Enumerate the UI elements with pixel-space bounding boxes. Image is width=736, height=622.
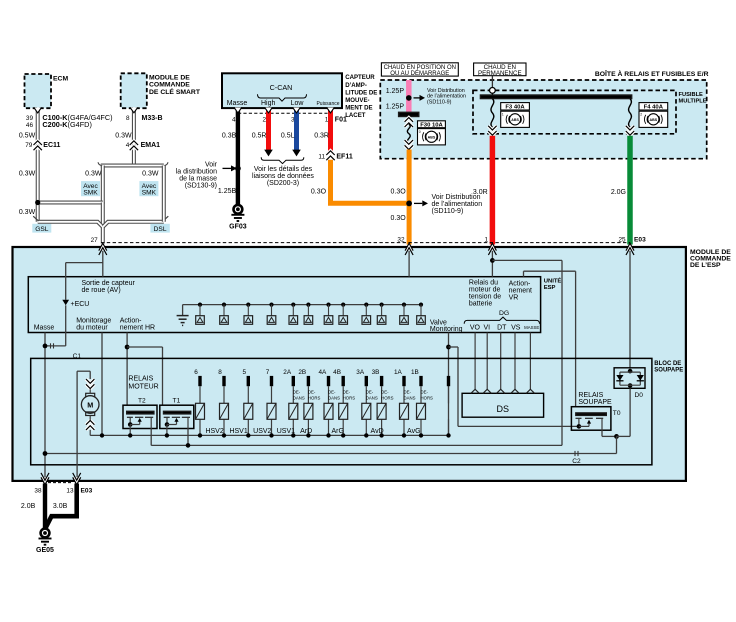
svg-text:EC11: EC11: [43, 142, 60, 149]
svg-text:F4 40A: F4 40A: [644, 105, 664, 111]
junction dot T0 out: [614, 434, 619, 439]
svg-text:E03: E03: [634, 237, 646, 244]
junction dot GSL/SMK: [35, 200, 40, 205]
see power distribution note top: [427, 88, 466, 106]
wire smart key to branch: [132, 108, 136, 165]
connector EMA1: [130, 141, 160, 150]
junction dot pink: [406, 95, 412, 101]
svg-text:COMMANDE: COMMANDE: [149, 82, 190, 89]
svg-text:ABS: ABS: [650, 118, 658, 122]
relay T0: [571, 407, 620, 431]
arrow alimentation top: [414, 95, 426, 101]
connector M33-B label: [142, 115, 163, 122]
connector F01 label: [335, 116, 347, 123]
wire label 0.3W left branch: [85, 171, 102, 178]
fuse F4 40A: [626, 99, 634, 136]
fuse F30 bar: [399, 112, 419, 116]
wire 3.0B: [46, 484, 77, 528]
entry chevron pin32: [405, 243, 413, 255]
label MASSE: [524, 325, 539, 330]
pin 2 label: [262, 116, 266, 123]
wire branch left (Avec SMK): [101, 166, 105, 204]
solenoid valves: [196, 403, 426, 419]
svg-text:2B: 2B: [298, 369, 306, 376]
connector gap C2: [575, 451, 578, 456]
svg-text:0.5L: 0.5L: [281, 133, 295, 140]
ground GE05: [36, 528, 54, 555]
valve block box: [31, 358, 652, 464]
wire T1 output: [187, 429, 189, 446]
svg-text:nement: nement: [509, 288, 532, 295]
svg-text:4A: 4A: [318, 369, 327, 376]
hot in ON label box: [381, 63, 458, 77]
svg-text:Sortie de capteur: Sortie de capteur: [82, 280, 136, 287]
pin 13 label: [66, 488, 74, 495]
fuse F30 10A: [405, 118, 413, 150]
svg-text:MENT DE: MENT DE: [345, 104, 372, 111]
entry chevron pin1: [488, 243, 496, 255]
svg-text:HORS: HORS: [381, 395, 394, 400]
motor M1: [81, 379, 99, 435]
pin 8 label: [126, 115, 130, 122]
svg-text:DS: DS: [497, 404, 510, 414]
svg-text:M: M: [87, 400, 93, 409]
svg-text:1.25P: 1.25P: [386, 88, 405, 95]
ECM box: [25, 74, 69, 108]
svg-text:0.3O: 0.3O: [391, 189, 407, 196]
label UNITE ESP: [544, 276, 562, 291]
svg-text:D’AMP-: D’AMP-: [345, 82, 367, 89]
svg-text:DE-: DE-: [404, 390, 412, 395]
svg-text:27: 27: [91, 237, 99, 244]
svg-text:HSV1: HSV1: [229, 428, 247, 435]
wire 3.0R: [490, 136, 496, 245]
exit chevron pin13: [73, 473, 81, 485]
wire VR: [524, 271, 576, 407]
+ECU arrow: [62, 300, 89, 308]
ESP module box: [13, 247, 686, 481]
label C1: [73, 353, 82, 360]
entry chevron pin25: [626, 243, 634, 255]
wire 2.0G: [627, 136, 633, 245]
pin 79 label: [25, 142, 33, 149]
label D0: [635, 392, 644, 399]
wire masse to pin38: [44, 333, 46, 478]
valve monitor squares: [196, 303, 426, 325]
svg-text:DG: DG: [499, 310, 509, 317]
svg-text:batterie: batterie: [469, 300, 492, 307]
svg-text:ABS: ABS: [511, 118, 519, 122]
pin 11 label: [318, 153, 325, 160]
svg-text:DE L’ESP: DE L’ESP: [690, 262, 721, 269]
fuse F30 label: [418, 121, 446, 129]
fuse F3 40A: [488, 99, 496, 136]
svg-text:FUSIBLE: FUSIBLE: [679, 92, 704, 98]
svg-text:Masse: Masse: [34, 324, 55, 331]
wire perm to bus: [491, 76, 493, 88]
wire 1.25P: [406, 80, 412, 112]
wire label 0.5R: [252, 133, 267, 140]
svg-text:ECM: ECM: [53, 76, 68, 83]
svg-text:0.3W: 0.3W: [115, 132, 132, 139]
pin 1 label module: [484, 237, 488, 244]
GSL DSL merge rail: [33, 216, 168, 226]
wire label 0.3O below: [391, 215, 407, 222]
DS unit: [462, 389, 543, 417]
label Valve Monitoring: [430, 319, 463, 333]
svg-text:ESP: ESP: [544, 285, 556, 291]
notch Low: [293, 108, 301, 113]
C2 bus: [43, 451, 617, 456]
label relais du moteur: [469, 279, 501, 307]
wire T0 output: [602, 430, 617, 436]
wire 0.3B masse: [236, 108, 240, 205]
svg-text:0: 0: [419, 130, 421, 134]
entry chevron pin27: [99, 243, 107, 255]
svg-text:BOÎTE À RELAIS ET FUSIBLES E/R: BOÎTE À RELAIS ET FUSIBLES E/R: [595, 69, 709, 78]
fuse F30 ABS icon: [418, 129, 446, 145]
wire label 0.3W M33: [115, 132, 132, 139]
svg-text:DE-: DE-: [366, 390, 374, 395]
svg-text:RELAIS: RELAIS: [128, 375, 153, 382]
svg-text:SOUPAPE: SOUPAPE: [654, 368, 683, 374]
wire 0.3O fuse to pin32: [407, 150, 412, 245]
svg-text:3B: 3B: [372, 369, 380, 376]
wire label 2.0B: [21, 503, 36, 510]
junction dot C1: [43, 344, 48, 349]
relay T1: [160, 398, 194, 429]
ECU unit box: [28, 277, 540, 333]
wire ECU to C1: [45, 305, 66, 346]
label sortie capteur: [82, 280, 136, 294]
pin 38 label: [34, 488, 42, 495]
svg-text:la distribution: la distribution: [176, 169, 217, 176]
svg-text:MOUVE-: MOUVE-: [345, 97, 369, 104]
svg-text:DE-: DE-: [343, 390, 351, 395]
wire label 2.0G: [611, 189, 626, 196]
connector EC11: [34, 141, 61, 150]
svg-text:MASSE: MASSE: [524, 325, 539, 330]
label DT: [497, 325, 507, 332]
wire branch to EC11 dot: [38, 201, 103, 205]
label bloc de soupape: [654, 361, 683, 374]
svg-text:DANS: DANS: [366, 395, 378, 400]
notch ECM pin: [34, 108, 42, 113]
svg-text:32: 32: [397, 237, 405, 244]
svg-text:ABS: ABS: [428, 135, 436, 139]
solenoid pin wires: [200, 376, 449, 436]
svg-text:0.3W: 0.3W: [19, 209, 36, 216]
wire monitoring to relay T0: [449, 347, 579, 426]
svg-text:T0: T0: [613, 410, 621, 417]
svg-text:2: 2: [262, 116, 266, 123]
svg-text:High: High: [261, 100, 276, 107]
junction dot HR: [125, 345, 130, 350]
svg-text:Voir les détails des: Voir les détails des: [254, 166, 313, 173]
svg-text:2: 2: [640, 112, 642, 116]
pin 4 label C-CAN: [232, 116, 236, 123]
wire label 1.25P b: [386, 104, 405, 111]
svg-text:0.3O: 0.3O: [311, 189, 327, 196]
svg-text:de la masse: de la masse: [179, 176, 217, 183]
svg-text:BLOC DE: BLOC DE: [654, 361, 681, 367]
capteur lacet label: [345, 74, 377, 119]
svg-text:(SD200-3): (SD200-3): [267, 180, 299, 187]
svg-text:(SD130-9): (SD130-9): [185, 183, 217, 190]
svg-text:0.3O: 0.3O: [391, 215, 407, 222]
svg-text:tension de: tension de: [469, 293, 501, 300]
fuse F3 label: [501, 103, 530, 111]
pin 27 label: [91, 237, 99, 244]
de-dans de-hors labels: [293, 390, 433, 401]
svg-text:DANS: DANS: [328, 395, 340, 400]
svg-text:ArD: ArD: [300, 428, 312, 435]
svg-text:Relais du: Relais du: [469, 279, 498, 286]
wire D0 to C2 node: [617, 388, 631, 436]
label Monitorage: [76, 317, 111, 331]
svg-text:38: 38: [34, 488, 42, 495]
notch High: [265, 108, 273, 113]
svg-text:Monitorage: Monitorage: [76, 317, 111, 324]
valve return bus: [90, 433, 451, 437]
svg-text:0.3W: 0.3W: [85, 171, 102, 178]
svg-text:F3 40A: F3 40A: [505, 105, 525, 111]
svg-text:HSV2: HSV2: [205, 428, 223, 435]
wire pin1 branch: [492, 260, 562, 445]
fuse F4 label: [639, 103, 668, 111]
svg-text:M33-B: M33-B: [142, 115, 163, 122]
svg-text:Action-: Action-: [509, 281, 531, 288]
connector E03 dashed line: [101, 242, 630, 244]
wire label 0.3B: [222, 133, 237, 140]
ECU ground bus: [183, 304, 421, 306]
bus node circle: [490, 88, 496, 96]
junction dot masse: [235, 166, 241, 172]
svg-text:+ECU: +ECU: [71, 301, 90, 308]
label VS: [511, 325, 521, 332]
wire 0.3O from EF11: [331, 160, 410, 204]
svg-text:VS: VS: [511, 325, 521, 332]
svg-text:DSL: DSL: [154, 226, 167, 233]
wire valve monitoring: [448, 333, 450, 436]
svg-text:13: 13: [66, 488, 74, 495]
svg-text:Voir: Voir: [205, 162, 218, 169]
svg-text:MOTEUR: MOTEUR: [128, 383, 158, 390]
relay soupape label: [578, 392, 612, 406]
notch Masse: [234, 108, 242, 113]
pin 39/46 labels: [26, 115, 34, 129]
label DG: [499, 310, 509, 317]
connector E03 label top: [634, 237, 646, 244]
see ground distribution note: [176, 162, 218, 190]
data link note: [252, 166, 314, 187]
svg-text:4B: 4B: [333, 369, 341, 376]
connector E03 label bottom: [81, 488, 93, 495]
svg-text:Low: Low: [291, 100, 305, 107]
pin 25 label: [618, 237, 626, 244]
svg-text:DE-: DE-: [381, 390, 389, 395]
svg-text:T2: T2: [138, 398, 146, 405]
wire HR to T1: [127, 347, 162, 405]
svg-text:DE CLÉ SMART: DE CLÉ SMART: [149, 87, 201, 96]
wire 2.0B: [43, 484, 47, 530]
fusible multiple box: [473, 90, 676, 133]
svg-text:T1: T1: [173, 398, 181, 405]
svg-text:1A: 1A: [394, 369, 403, 376]
wire monitorage: [101, 333, 103, 436]
svg-text:1.25B: 1.25B: [218, 188, 237, 195]
svg-text:0.3W: 0.3W: [19, 171, 36, 178]
svg-text:de roue (AV): de roue (AV): [82, 287, 121, 294]
label C2: [572, 458, 581, 465]
svg-text:7: 7: [266, 369, 270, 376]
svg-text:2.0B: 2.0B: [21, 503, 36, 510]
notch M33 pin: [130, 107, 138, 112]
svg-text:GE05: GE05: [36, 547, 54, 554]
wire actionnement HR: [126, 333, 128, 406]
svg-text:46: 46: [26, 122, 34, 129]
svg-text:3.0R: 3.0R: [473, 189, 488, 196]
svg-text:1: 1: [484, 237, 488, 244]
svg-text:1: 1: [502, 112, 504, 116]
svg-text:6: 6: [194, 369, 198, 376]
svg-text:2.0G: 2.0G: [611, 189, 626, 196]
svg-text:EF11: EF11: [336, 153, 352, 160]
hot at all times label box: [474, 63, 526, 77]
wire label 0.3R: [314, 133, 329, 140]
pin 32 label: [397, 237, 405, 244]
wire pin27 internal: [66, 251, 103, 300]
svg-text:(SD110-9): (SD110-9): [432, 208, 464, 215]
svg-text:0.3B: 0.3B: [222, 133, 237, 140]
svg-text:3.0B: 3.0B: [53, 503, 68, 510]
svg-text:3A: 3A: [356, 369, 365, 376]
svg-text:DANS: DANS: [404, 395, 416, 400]
svg-text:DE-: DE-: [421, 390, 429, 395]
svg-text:OU AU DÉMARRAGE: OU AU DÉMARRAGE: [390, 70, 449, 77]
connector F01 dashed line: [238, 112, 331, 114]
fuse F4 ABS icon: [639, 111, 668, 127]
wires DS: [475, 333, 530, 390]
pin 3 label: [291, 116, 295, 123]
label Masse ECU: [34, 324, 55, 331]
relay T2: [123, 398, 157, 429]
svg-text:DE-: DE-: [328, 390, 336, 395]
label VO: [470, 325, 481, 332]
ground GF03: [229, 204, 247, 231]
wire 0.5L CAN Low: [292, 108, 301, 156]
fusible multiple label: [679, 92, 707, 105]
label VI: [483, 325, 490, 332]
svg-text:HORS: HORS: [421, 395, 434, 400]
svg-text:8: 8: [218, 369, 222, 376]
wire label 0.3W ECM: [19, 171, 36, 178]
svg-text:1.25P: 1.25P: [386, 104, 405, 111]
svg-text:DE-: DE-: [308, 390, 316, 395]
wire T2 output: [150, 429, 152, 446]
connector gap C1: [51, 343, 54, 348]
junction dot orange: [406, 201, 412, 207]
svg-text:C200-K(G4FD): C200-K(G4FD): [42, 120, 91, 129]
C-CAN yaw sensor box: [222, 73, 342, 108]
svg-text:11: 11: [318, 153, 325, 160]
svg-text:HORS: HORS: [308, 395, 321, 400]
svg-text:liaisons de données: liaisons de données: [252, 173, 314, 180]
exit chevron pin38: [41, 473, 49, 485]
valve name labels: [205, 428, 420, 435]
svg-text:SOUPAPE: SOUPAPE: [578, 399, 612, 406]
svg-text:0.3R: 0.3R: [314, 133, 329, 140]
wire C2 riser: [616, 436, 618, 453]
svg-text:Puissance: Puissance: [316, 101, 339, 107]
svg-text:GSL: GSL: [35, 226, 49, 233]
label Actionnement HR: [120, 317, 155, 331]
svg-text:MODULE DE: MODULE DE: [149, 75, 190, 82]
pin 4 label: [126, 142, 130, 149]
svg-text:4: 4: [126, 142, 130, 149]
svg-text:CHAUD EN POSITION ON: CHAUD EN POSITION ON: [384, 65, 456, 71]
svg-text:0.5R: 0.5R: [252, 133, 267, 140]
svg-text:CAPTEUR: CAPTEUR: [345, 74, 375, 81]
svg-text:D0: D0: [635, 392, 644, 399]
smart key module box: [121, 73, 201, 108]
svg-text:UNITÉ: UNITÉ: [544, 276, 562, 284]
svg-text:25: 25: [618, 237, 626, 244]
wire label 0.3W right branch: [142, 171, 159, 178]
wire label 1.25B: [218, 188, 237, 195]
ESP module title: [690, 249, 731, 269]
data link brace: [261, 157, 304, 163]
svg-text:4: 4: [232, 116, 236, 123]
svg-text:LITUDE DE: LITUDE DE: [345, 89, 377, 96]
motor feed wire: [77, 371, 90, 477]
svg-text:0.5W: 0.5W: [19, 132, 36, 139]
svg-text:2A: 2A: [283, 369, 292, 376]
svg-text:DT: DT: [497, 325, 507, 332]
wire label 0.3O above: [391, 189, 407, 196]
relay fuse box E/R: [380, 80, 706, 159]
svg-text:C-CAN: C-CAN: [270, 83, 293, 92]
svg-text:RELAIS: RELAIS: [578, 392, 603, 399]
arrow to masse wire: [223, 165, 237, 171]
see power distribution note mid: [432, 194, 483, 215]
svg-text:F01: F01: [335, 116, 347, 123]
svg-text:VR: VR: [509, 295, 519, 302]
wire label 1.25P a: [386, 88, 405, 95]
label relais moteur: [128, 375, 158, 390]
node DSL: [150, 224, 169, 233]
wire label 0.3O left: [311, 189, 327, 196]
svg-text:USV2: USV2: [253, 428, 271, 435]
svg-text:LACET: LACET: [345, 112, 366, 119]
wire 0.3R puissance: [328, 108, 333, 151]
ECU chassis ground: [177, 305, 189, 326]
wire pin32 internal: [408, 251, 410, 277]
notch Puissance: [327, 108, 335, 113]
pin 1 label F01: [325, 116, 329, 123]
solenoid pin labels: [194, 369, 419, 376]
wire label 0.3W GSL: [19, 209, 36, 216]
wire pin1 internal: [491, 251, 493, 277]
relay output bus: [151, 443, 562, 448]
pins 38-13 dashed line: [48, 482, 73, 484]
svg-text:du moteur: du moteur: [76, 324, 108, 331]
connector C100-K label: [42, 113, 112, 129]
svg-text:Monitoring: Monitoring: [430, 326, 463, 333]
wire branch right (DSL): [162, 166, 166, 222]
svg-text:79: 79: [25, 142, 33, 149]
svg-text:MULTIPLE: MULTIPLE: [679, 99, 707, 105]
